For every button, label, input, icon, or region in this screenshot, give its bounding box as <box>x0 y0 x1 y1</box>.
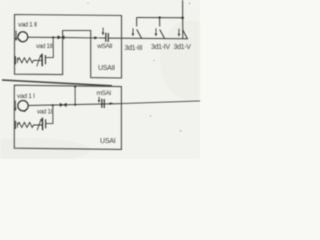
node B2 junction dot <box>74 104 76 106</box>
wire G1 to tower <box>28 36 63 38</box>
block USAI outer box <box>14 85 121 149</box>
variable capacitor C1 plates <box>42 54 46 67</box>
svg-text:3d1-V: 3d1-V <box>174 44 192 51</box>
switch S3 contact arm <box>183 30 188 39</box>
node B3 dot at top edge <box>74 86 76 88</box>
top rail <box>137 17 183 19</box>
switch S2 contact arm <box>160 30 165 39</box>
arrowhead on bottom wire <box>110 102 114 105</box>
source circle G1 <box>18 32 28 42</box>
variable arrow over C3 <box>37 119 42 131</box>
separator thick line <box>2 80 112 86</box>
switch S1 contact arm <box>137 29 142 38</box>
arrow into source U2 <box>14 101 17 112</box>
switch S1 arrow <box>132 28 135 36</box>
vertical feed wire to top edge <box>182 0 184 39</box>
strobe arrow at C2 <box>102 28 105 36</box>
tap wire up to box top <box>74 86 76 104</box>
svg-text:wSAII: wSAII <box>96 43 112 50</box>
stub wire from node A1 down <box>46 37 54 57</box>
main wire G2 to box edge <box>28 104 121 106</box>
capacitor C4 plates <box>102 99 105 108</box>
svg-text:USAI: USAI <box>100 138 116 145</box>
node A1 junction dot <box>52 36 54 38</box>
terminal T2 bars <box>15 121 17 129</box>
arrow into source U1 <box>15 31 18 42</box>
node B1 junction dot <box>52 104 54 106</box>
node rail dot 2 <box>158 16 160 18</box>
bowtie connector X1 <box>58 35 65 39</box>
node rail dot 3 <box>181 17 184 20</box>
resistor R1 zigzag <box>18 58 42 63</box>
switch S2 arrow <box>155 28 158 36</box>
rail drop wire 2 <box>159 18 161 27</box>
wire C2 to right section <box>108 37 188 40</box>
block USAII outer box with tower notch <box>15 15 122 79</box>
wire to capacitor C2 <box>99 37 106 39</box>
svg-text:vad 1 II: vad 1 II <box>18 22 37 29</box>
strobe arrow at C4 <box>98 97 101 103</box>
rail drop wire 1 <box>136 18 138 27</box>
variable capacitor C3 plates <box>42 118 45 131</box>
svg-text:3d1-III: 3d1-III <box>125 45 143 52</box>
svg-text:3d1-IV: 3d1-IV <box>151 44 170 51</box>
svg-text:mSAI: mSAI <box>97 90 112 97</box>
variable arrow over C1 <box>37 55 42 67</box>
source circle G2 <box>18 101 28 112</box>
svg-text:vad 1I: vad 1I <box>37 108 53 115</box>
svg-text:vad 1 I: vad 1 I <box>17 93 35 100</box>
switch S3 arrow <box>178 29 181 37</box>
capacitor C2 plates <box>106 33 109 42</box>
svg-text:vad 1II: vad 1II <box>36 43 53 50</box>
wire to right image edge <box>121 101 200 104</box>
svg-text:USAII: USAII <box>98 65 115 72</box>
wire through tower <box>63 37 95 39</box>
stub wire from node B1 down <box>46 105 53 123</box>
arrowhead on wire <box>94 36 98 39</box>
noise specks <box>88 3 191 132</box>
terminal T1 bars <box>15 56 17 64</box>
bowtie connector X2 <box>60 103 67 107</box>
resistor R2 zigzag <box>18 122 43 127</box>
